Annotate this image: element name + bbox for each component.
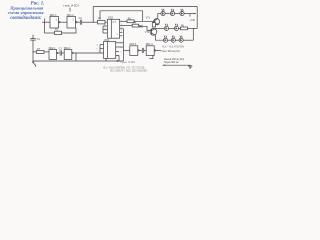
node j4 <box>117 60 119 62</box>
wire DD1.4 output <box>156 49 161 51</box>
resistor R2 <box>98 20 106 24</box>
wire R7 to DD2.1 <box>44 51 49 53</box>
wire right rail <box>196 7 198 29</box>
wire to cap <box>58 52 60 54</box>
wire DD2 pin to R3 <box>120 20 127 22</box>
svg-text:к выв. 14 DD1: к выв. 14 DD1 <box>121 62 137 64</box>
wire top rail <box>93 6 197 8</box>
svg-text:2: 2 <box>120 43 121 45</box>
gate DD2.2 <box>64 50 73 60</box>
capacitor C2 <box>80 20 81 25</box>
wire gen2 output to DD3 <box>73 52 103 54</box>
ground <box>188 65 192 68</box>
label DD3 pin numbers <box>97 43 122 58</box>
wire right drop <box>192 28 194 40</box>
wire DD1.2 output <box>77 21 80 23</box>
wire DD2 pin stub2 <box>120 35 123 37</box>
wire <box>175 13 180 15</box>
svg-text:7: 7 <box>121 30 122 32</box>
resistor R5 <box>152 23 155 27</box>
resistor R4 <box>132 24 139 27</box>
resistor R6 <box>181 27 188 30</box>
wire <box>175 39 179 41</box>
resistor R7 <box>36 51 44 54</box>
svg-text:+9 В: +9 В <box>190 19 195 22</box>
wire rail2 right drop <box>142 11 144 21</box>
wire C2 to R2 <box>82 21 98 23</box>
svg-text:4: 4 <box>121 27 122 29</box>
wire bottom rail <box>33 60 123 62</box>
caption figure text <box>8 2 45 21</box>
label DD2 pin numbers <box>104 21 121 37</box>
wire R3 to VT1 base <box>134 20 155 22</box>
switch SA1 <box>33 62 36 67</box>
IC DD3 <box>104 42 116 59</box>
capacitor C4 <box>142 48 143 53</box>
resistor R3 <box>127 20 134 23</box>
svg-text:8: 8 <box>104 25 105 27</box>
gate DD1.4 <box>146 46 155 56</box>
wire DD2 pin to down bus <box>120 28 124 30</box>
wire gen1 left vertical <box>43 19 45 34</box>
wire to C4 <box>139 49 142 51</box>
wire left rail <box>32 40 34 61</box>
svg-text:DD2.1: DD2.1 <box>49 47 56 50</box>
wire input tap <box>123 49 129 51</box>
svg-text:к выв. 14 DD1: к выв. 14 DD1 <box>63 5 79 8</box>
LED HL3 <box>180 9 184 16</box>
svg-text:5: 5 <box>117 34 118 36</box>
wire cap to DD2.2 <box>62 52 65 54</box>
wire <box>158 13 161 15</box>
svg-text:CT: CT <box>113 21 117 24</box>
resistor R1 <box>55 31 62 34</box>
svg-text:VT1: VT1 <box>146 17 151 20</box>
wire arrow to plus <box>190 13 196 14</box>
wire DD2 left pins <box>103 26 107 33</box>
LED HL5 <box>174 24 178 31</box>
svg-text:DD2.2: DD2.2 <box>64 47 71 50</box>
svg-text:2: 2 <box>121 21 122 23</box>
LED HL7 <box>171 36 175 43</box>
svg-text:НL6 – НL8 АЛ307ВМ: НL6 – НL8 АЛ307ВМ <box>162 46 184 49</box>
capacitor C1 <box>30 35 36 40</box>
LED HL6 <box>163 36 167 43</box>
wire DD1.1 to DD1.2 <box>60 21 67 23</box>
svg-text:VT2: VT2 <box>145 31 150 34</box>
wire row A stub down <box>189 14 191 17</box>
LED HL8 <box>179 36 183 43</box>
wire <box>168 39 172 41</box>
transistor VT2 <box>150 28 157 35</box>
wire <box>169 27 175 29</box>
svg-text:DD1.1: DD1.1 <box>50 14 57 17</box>
svg-text:Свет 100 мс [Зч]: Свет 100 мс [Зч] <box>162 50 180 53</box>
svg-text:1: 1 <box>121 24 122 26</box>
gate DD1.2 <box>67 17 77 29</box>
wire VD1 to VT2 base <box>142 26 152 30</box>
diode VD1 <box>139 25 142 28</box>
wire vertical bus x123 <box>122 29 124 61</box>
LED HL1 <box>161 9 165 16</box>
wire DD3 left pins <box>100 45 104 54</box>
wire gen2 input <box>33 51 36 53</box>
wire feedback right <box>62 28 77 33</box>
capacitor C3 <box>60 50 61 55</box>
wire arrow line <box>163 64 191 66</box>
wire VT1 collector <box>157 14 159 19</box>
svg-text:3: 3 <box>97 44 98 46</box>
LED HL4 <box>164 24 168 31</box>
node j3 <box>75 52 76 53</box>
wire R2 to DD2 <box>105 21 107 23</box>
svg-text:HL1—HL8 АЛ307БМ, VT1, VT2 КТ3: HL1—HL8 АЛ307БМ, VT1, VT2 КТ315Б <box>103 66 145 69</box>
svg-text:4: 4 <box>120 47 121 49</box>
node j1 <box>93 22 94 23</box>
wire VT2 collector to LED row B <box>155 27 164 29</box>
LED HL2 <box>170 9 174 16</box>
wire DD1.4 bottom <box>150 55 153 58</box>
svg-text:DD1 К561ЛА7, DD2, DD3 К561ИЕ8: DD1 К561ЛА7, DD2, DD3 К561ИЕ8 <box>110 70 147 73</box>
wire R6 to rail <box>188 27 198 29</box>
wire top rail drop x93 <box>92 7 94 23</box>
wire VT2 emitter to LED row C <box>155 35 163 40</box>
wire gen1 feedback bottom <box>44 32 54 34</box>
gate DD1.3 <box>130 46 139 56</box>
wire <box>165 13 170 15</box>
svg-text:DD1.2: DD1.2 <box>67 14 74 17</box>
IC DD2 <box>107 19 119 38</box>
svg-text:5: 5 <box>97 48 98 50</box>
wire DD2 pin stub <box>120 31 123 33</box>
transistor VT1 <box>154 18 160 25</box>
wire second rail <box>100 10 143 12</box>
wire gen1 input <box>42 21 50 23</box>
wire gen2 feedback <box>75 53 77 61</box>
svg-text:DD3: DD3 <box>104 39 109 42</box>
svg-text:схема управления: схема управления <box>8 10 45 15</box>
svg-text:DD1.3: DD1.3 <box>129 43 136 46</box>
wire rail2 left drop <box>99 11 101 19</box>
node j2 <box>32 51 33 52</box>
svg-text:7: 7 <box>120 51 121 53</box>
wire C4 to DD1.4 <box>144 49 147 51</box>
svg-text:DD1.4: DD1.4 <box>146 43 153 46</box>
wire callout tick <box>69 8 71 12</box>
svg-text:светодиодами:: светодиодами: <box>10 16 42 21</box>
wire DD3 bottom <box>105 58 107 61</box>
svg-text:9: 9 <box>117 55 118 57</box>
wire to R6 <box>179 27 181 29</box>
wire DD3 right pins <box>116 43 124 61</box>
gate DD1.1 <box>50 17 60 29</box>
gate DD2.1 <box>49 50 58 60</box>
wire DD2 pin to R4 <box>120 25 133 27</box>
svg-text:Пауза 600 мс: Пауза 600 мс <box>164 61 180 64</box>
wire row C end <box>183 39 193 41</box>
svg-text:9: 9 <box>104 28 105 30</box>
wire row A end <box>184 13 190 15</box>
svg-text:DD2: DD2 <box>108 17 113 20</box>
